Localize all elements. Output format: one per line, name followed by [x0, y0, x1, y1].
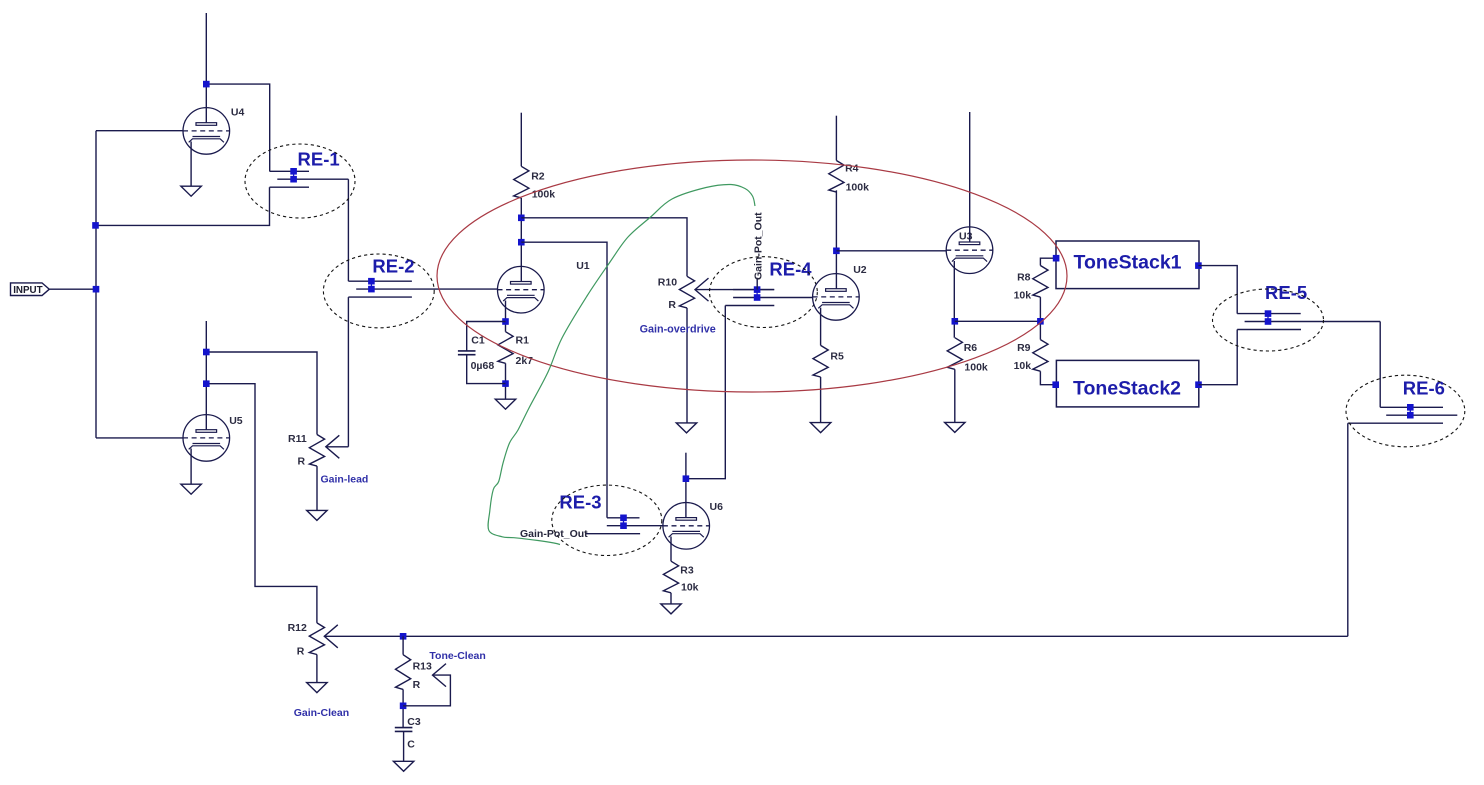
svg-text:10k: 10k [1014, 290, 1032, 302]
svg-text:Gain-overdrive: Gain-overdrive [640, 323, 716, 335]
svg-text:R: R [413, 679, 421, 691]
svg-text:R9: R9 [1017, 342, 1031, 354]
svg-text:U2: U2 [853, 264, 867, 276]
svg-text:R2: R2 [531, 171, 545, 183]
svg-text:R: R [298, 456, 306, 468]
svg-text:R4: R4 [845, 162, 859, 174]
svg-text:100k: 100k [846, 181, 870, 193]
svg-text:R6: R6 [964, 342, 978, 354]
svg-text:R8: R8 [1017, 272, 1031, 284]
svg-text:R12: R12 [288, 622, 307, 634]
svg-text:R13: R13 [413, 661, 432, 673]
svg-text:Gain-Clean: Gain-Clean [294, 707, 349, 719]
svg-text:INPUT: INPUT [13, 285, 42, 296]
svg-text:ToneStack2: ToneStack2 [1073, 378, 1181, 400]
svg-text:0µ68: 0µ68 [471, 360, 495, 372]
svg-text:U4: U4 [231, 107, 245, 119]
svg-text:RE-5: RE-5 [1265, 282, 1307, 303]
svg-text:U3: U3 [959, 231, 973, 243]
svg-text:R11: R11 [288, 433, 307, 445]
svg-text:R10: R10 [658, 277, 677, 289]
svg-text:100k: 100k [964, 362, 988, 374]
svg-text:Gain-Pot_Out: Gain-Pot_Out [520, 528, 588, 540]
svg-text:RE-6: RE-6 [1403, 377, 1445, 398]
svg-text:U1: U1 [576, 260, 590, 272]
svg-text:ToneStack1: ToneStack1 [1074, 252, 1182, 274]
svg-text:10k: 10k [1014, 360, 1032, 372]
svg-text:C3: C3 [407, 716, 421, 728]
svg-text:100k: 100k [532, 188, 556, 200]
svg-text:R: R [297, 645, 305, 657]
svg-text:RE-4: RE-4 [769, 259, 812, 280]
svg-text:C: C [407, 739, 415, 751]
svg-text:R: R [668, 299, 676, 311]
svg-text:R3: R3 [680, 565, 694, 577]
svg-text:RE-2: RE-2 [372, 255, 414, 276]
svg-text:R5: R5 [830, 350, 844, 362]
svg-text:Tone-Clean: Tone-Clean [429, 650, 485, 662]
svg-text:10k: 10k [681, 582, 699, 594]
svg-text:R1: R1 [516, 335, 530, 347]
svg-text:Gain-Pot_Out: Gain-Pot_Out [753, 212, 765, 280]
svg-text:U5: U5 [229, 415, 243, 427]
svg-text:Gain-lead: Gain-lead [321, 474, 369, 486]
svg-text:U6: U6 [710, 501, 724, 513]
svg-text:RE-1: RE-1 [298, 149, 340, 170]
svg-text:RE-3: RE-3 [559, 492, 601, 513]
